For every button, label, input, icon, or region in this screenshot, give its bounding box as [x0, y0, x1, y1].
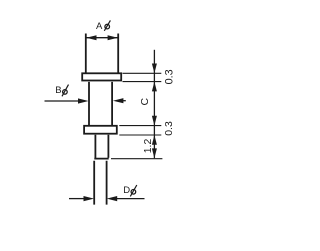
top cylinder body sides — [86, 34, 118, 73]
svg-text:D: D — [123, 185, 130, 196]
svg-text:A: A — [96, 21, 103, 32]
upper flange — [82, 73, 121, 80]
extension line lower flange top — [119, 125, 161, 127]
extension line flange top — [123, 72, 162, 74]
extension line lead start — [111, 158, 162, 160]
lead wire — [94, 161, 106, 205]
arrow up at flange bottom — [152, 82, 157, 92]
arrow down at lower flange top — [152, 116, 157, 126]
dimension line Aø — [86, 37, 118, 39]
dimension arrows Dø — [69, 198, 84, 200]
svg-text:1.2: 1.2 — [143, 139, 154, 154]
svg-text:C: C — [139, 97, 151, 105]
arrow up at lower flange bottom — [152, 135, 157, 145]
extension line flange bottom — [123, 81, 162, 83]
arrow down at flange top — [152, 64, 157, 74]
arrow down at lead start line — [152, 148, 157, 158]
extension line lower flange bottom — [119, 134, 161, 136]
svg-text:B: B — [55, 85, 61, 96]
middle body sides — [89, 82, 112, 125]
vertical dimension line — [153, 50, 155, 158]
lower flange — [84, 126, 117, 134]
leader arrow C — [122, 100, 126, 102]
leader arrow Bø — [45, 100, 80, 102]
svg-text:0.3: 0.3 — [164, 121, 175, 136]
svg-text:0.3: 0.3 — [164, 69, 176, 84]
lead thick stub — [94, 135, 108, 159]
